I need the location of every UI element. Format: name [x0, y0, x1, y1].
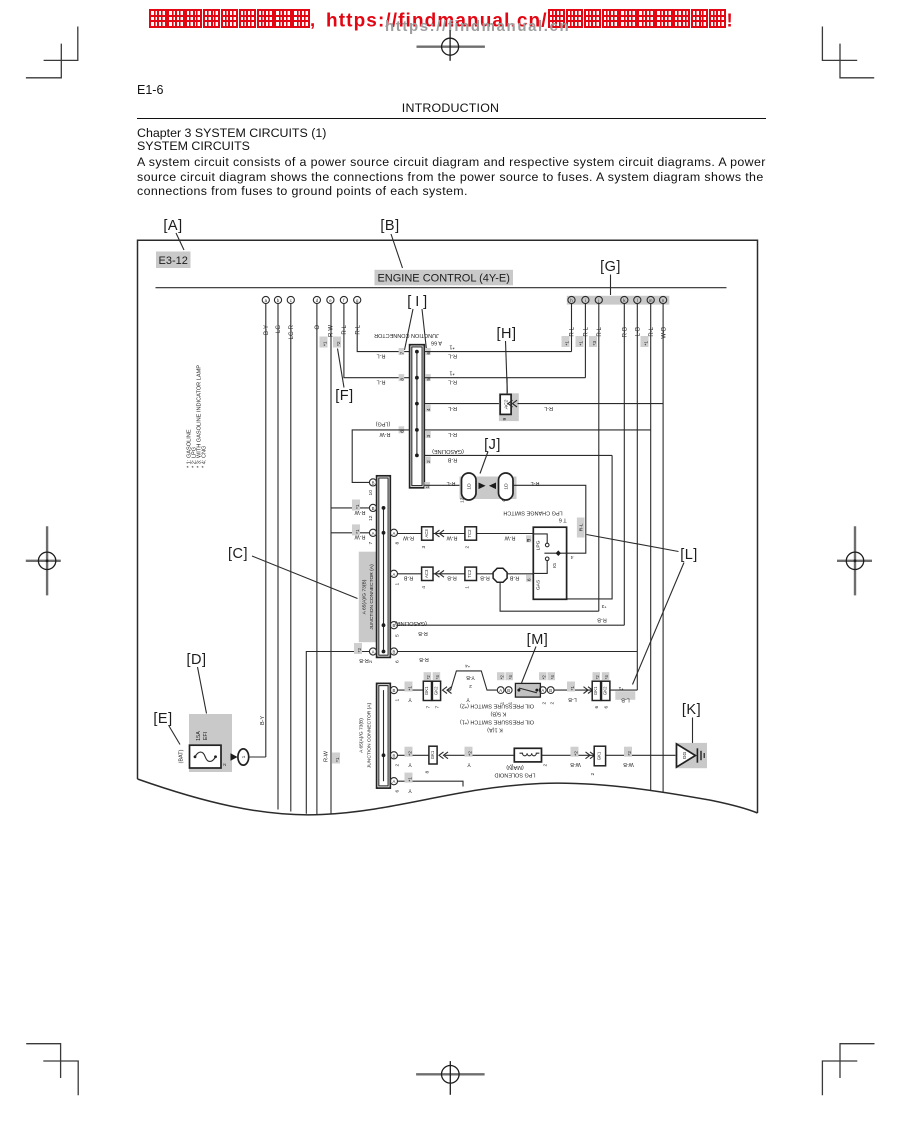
svg-text:[F]: [F]: [335, 388, 353, 404]
ground GG: [675, 743, 707, 768]
svg-text:*2: *2: [336, 341, 342, 346]
svg-text:R-W: R-W: [354, 534, 366, 540]
svg-text:6: 6: [395, 790, 401, 793]
svg-text:*2: *2: [499, 675, 504, 680]
svg-text:*4: *4: [508, 675, 513, 680]
svg-text:L-B: L-B: [568, 696, 577, 702]
svg-text:*1: *1: [408, 686, 414, 691]
svg-text:R-B: R-B: [447, 457, 457, 463]
svg-text:[ I ]: [ I ]: [407, 294, 427, 310]
svg-text:1D: 1D: [467, 483, 473, 490]
svg-text:R-L: R-L: [584, 326, 590, 336]
svg-text:5: 5: [395, 634, 401, 637]
svg-text:JUNCTION CONNECTOR (A): JUNCTION CONNECTOR (A): [366, 702, 372, 768]
svg-text:T 6: T 6: [559, 517, 567, 523]
diode connector 1D pair: [460, 477, 517, 500]
svg-text:(GASOLINE): (GASOLINE): [395, 620, 427, 626]
row B1: Y wire to oil pressure switch: [398, 689, 424, 691]
wire AC2 to pin n: [518, 403, 664, 405]
svg-text:3: 3: [426, 435, 432, 438]
wire l (pin l to L-B row): [636, 304, 638, 690]
svg-text:B: B: [372, 506, 375, 511]
svg-text:j: j: [597, 298, 599, 303]
wire gasoline return riser: [567, 455, 613, 599]
svg-text:GK1: GK1: [424, 686, 429, 695]
wire colour labels left bank: [264, 324, 361, 339]
LPG solenoid (MAIN) coil: [514, 748, 541, 762]
svg-text:3: 3: [421, 546, 427, 549]
svg-text:1: 1: [425, 486, 431, 489]
wire LPG loop A66 pin6 to B10: [352, 430, 409, 483]
A66 internal junction nodes: [415, 350, 419, 458]
svg-text:*1: *1: [644, 341, 650, 346]
row B5 GASOLINE R-B: [398, 624, 625, 626]
svg-text:2: 2: [426, 460, 432, 463]
wire R-L *2 (pin f to A66 pin 8): [344, 304, 410, 378]
svg-text:a: a: [265, 298, 268, 303]
svg-text:E3-12: E3-12: [159, 255, 188, 267]
svg-text:R-L: R-L: [342, 324, 348, 334]
oil pressure switch S1: [515, 683, 540, 697]
svg-text:*1: *1: [565, 341, 571, 346]
svg-text:R-L: R-L: [377, 379, 386, 385]
relay AC2: [499, 393, 519, 421]
wire A66 pin3 row to wire m: [424, 429, 650, 431]
wire jog Y-B *4: [448, 671, 497, 690]
wire k (pin k to B5 row): [623, 304, 625, 626]
svg-text:B: B: [392, 753, 395, 758]
figure frame with torn-edge bottom: [138, 240, 758, 815]
svg-text:(BAT): (BAT): [179, 749, 185, 763]
svg-text:1D: 1D: [504, 483, 510, 490]
connector GK1 (ground row): [594, 746, 605, 766]
connector AC3 (row 1): [422, 527, 433, 540]
row labels left of A66: [375, 353, 390, 437]
svg-text:R-B: R-B: [623, 327, 629, 337]
wire A66 pin6 row to pin h: [424, 304, 571, 352]
svg-text:6: 6: [594, 706, 600, 709]
svg-text:* 4: CNG: * 4: CNG: [202, 446, 208, 468]
fuse output arrow and pin 1: [231, 753, 238, 760]
svg-text:[H]: [H]: [496, 326, 516, 342]
svg-text:2: 2: [543, 764, 549, 767]
svg-text:A: A: [392, 531, 395, 536]
tag R-L on J wire: [577, 518, 585, 538]
svg-text:R-B: R-B: [597, 617, 607, 623]
svg-text:LPG: LPG: [536, 540, 542, 550]
svg-text:B-Y: B-Y: [264, 325, 270, 335]
wire fuse to B-Y: [249, 756, 266, 758]
svg-text:*2: *2: [468, 751, 474, 756]
svg-text:7: 7: [400, 352, 406, 355]
svg-text:W-B: W-B: [661, 327, 667, 339]
svg-text:A 65(A)/G 73(B): A 65(A)/G 73(B): [361, 579, 367, 614]
svg-text:R-B: R-B: [509, 575, 519, 581]
title rule: [137, 118, 766, 120]
svg-text:7: 7: [434, 706, 440, 709]
connector TC2 (row 2): [465, 567, 477, 580]
bus line: [156, 287, 727, 289]
svg-text:R-B: R-B: [359, 657, 369, 663]
wire n (pin n long run): [662, 304, 664, 792]
header banner: [149, 9, 749, 35]
svg-text:1: 1: [241, 755, 247, 758]
svg-text:B: B: [372, 480, 375, 485]
svg-text:R-W: R-W: [324, 750, 330, 762]
svg-text:d: d: [316, 298, 319, 303]
svg-text:g: g: [356, 298, 359, 303]
svg-text:GAS: GAS: [536, 579, 542, 590]
svg-text:7: 7: [368, 542, 374, 545]
wire option tags *1 *2 on bus wires: [320, 336, 650, 348]
wire 1D to switch pin 4: [513, 485, 586, 553]
svg-text:*1: *1: [408, 777, 414, 782]
wire R-W *1 (pin e): [330, 304, 332, 815]
svg-text:LG-R: LG-R: [289, 324, 295, 339]
svg-text:B: B: [392, 688, 395, 693]
bus pins a-g: [262, 296, 361, 303]
svg-text:GK2: GK2: [603, 686, 608, 695]
wire R-L *1 (pin g to A66 pin 7): [357, 304, 409, 352]
svg-text:R-W: R-W: [354, 509, 366, 515]
svg-text:Y: Y: [466, 696, 470, 702]
row B6 R-B to wire l: [398, 651, 638, 653]
svg-text:*3: *3: [601, 603, 606, 609]
section title: [0, 101, 901, 115]
svg-text:R-L: R-L: [448, 379, 457, 385]
svg-text:K 1(A): K 1(A): [487, 727, 503, 733]
gray watermark url: [385, 18, 570, 35]
junction connector A65/G73 upper body: [377, 476, 391, 658]
svg-text:8: 8: [400, 378, 406, 381]
svg-text:B-Y: B-Y: [260, 716, 266, 726]
figure number tag E3-12: [156, 252, 191, 269]
svg-text:R-L: R-L: [597, 326, 603, 336]
svg-text:TC2: TC2: [467, 569, 472, 578]
svg-text:K 5(B): K 5(B): [490, 711, 506, 717]
svg-text:9: 9: [502, 418, 508, 421]
svg-text:*4: *4: [604, 675, 609, 680]
wire R-W *1 to pin A7: [331, 532, 369, 534]
row A1 to octagon to switch pin 6: [398, 573, 494, 575]
svg-text:2: 2: [222, 763, 228, 766]
wire LG (pin b): [277, 304, 279, 810]
svg-text:2: 2: [590, 773, 596, 776]
svg-text:Y: Y: [408, 761, 412, 767]
svg-text:GK1: GK1: [597, 751, 602, 760]
svg-text:b: b: [277, 298, 280, 303]
svg-text:R-L: R-L: [649, 326, 655, 336]
LPG change switch U2: [533, 527, 566, 599]
svg-text:AC3: AC3: [424, 529, 429, 538]
svg-text:R-L: R-L: [570, 326, 576, 336]
svg-text:O: O: [315, 325, 321, 330]
wire R-W *1 to pin B12: [331, 507, 369, 509]
svg-text:GK1: GK1: [593, 686, 598, 695]
svg-text:A 66: A 66: [431, 340, 442, 346]
connector GK1 (solenoid row left): [429, 746, 437, 764]
svg-text:Y-B: Y-B: [466, 674, 475, 680]
svg-text:*1: *1: [355, 504, 361, 509]
svg-text:B: B: [392, 623, 395, 628]
row A8 to LPG change switch pin 3: [398, 533, 534, 535]
svg-text:Y: Y: [467, 761, 471, 767]
svg-text:L-B: L-B: [621, 697, 630, 703]
upper connector pins right: [390, 529, 397, 655]
bottom-center target mark: [416, 1061, 485, 1095]
system title ENGINE CONTROL (4Y-E): [375, 270, 514, 286]
svg-text:OIL PRESSURE SWITCH (*2): OIL PRESSURE SWITCH (*2): [460, 703, 534, 709]
junction connector A66 body: [410, 345, 425, 488]
svg-text:[K]: [K]: [682, 702, 701, 718]
fuse EFI 15A: [189, 714, 232, 772]
svg-text:*4: *4: [435, 675, 440, 680]
wire octagon loop R-B *3: [500, 582, 599, 611]
svg-text:6: 6: [604, 706, 610, 709]
upper connector pins left: [369, 479, 376, 655]
wire W-B to GK1: [542, 754, 595, 756]
svg-text:[E]: [E]: [153, 711, 172, 727]
svg-text:2: 2: [542, 702, 548, 705]
footnote legend (rotated): [187, 365, 208, 468]
svg-text:*2: *2: [595, 675, 600, 680]
connector GK1/GK2 pair (row B1): [423, 681, 431, 700]
svg-text:GK1: GK1: [430, 750, 435, 759]
svg-text:*1: *1: [579, 341, 585, 346]
svg-text:R-L: R-L: [544, 405, 553, 411]
svg-text:R-B: R-B: [419, 656, 429, 662]
svg-text:A: A: [499, 688, 502, 693]
chapter heading: [137, 127, 326, 153]
svg-text:[L]: [L]: [680, 547, 698, 563]
svg-text:R-L: R-L: [448, 405, 457, 411]
svg-text:R-L: R-L: [377, 353, 386, 359]
svg-text:15A: 15A: [196, 731, 202, 741]
svg-text:A: A: [392, 572, 395, 577]
svg-text:*2: *2: [574, 751, 580, 756]
svg-text:3: 3: [527, 537, 530, 543]
wire m (pin m long run): [650, 304, 652, 791]
svg-text:f: f: [343, 298, 345, 303]
svg-text:R-W: R-W: [379, 431, 391, 437]
svg-text:A: A: [372, 650, 375, 655]
svg-text:1: 1: [395, 583, 401, 586]
svg-text:*1: *1: [355, 529, 361, 534]
bus pins h-n: [568, 296, 667, 303]
svg-text:[J]: [J]: [484, 437, 501, 453]
svg-text:2: 2: [469, 683, 472, 689]
svg-text:GK2: GK2: [433, 686, 438, 695]
svg-text:[G]: [G]: [600, 259, 621, 275]
svg-text:6: 6: [395, 660, 401, 663]
svg-text:GG: GG: [682, 752, 688, 760]
svg-text:[D]: [D]: [186, 652, 206, 668]
node octagon: [493, 568, 507, 582]
connector GK1/GK2 pair (L-B row): [592, 681, 600, 700]
svg-text:[M]: [M]: [527, 632, 549, 648]
page number: [137, 83, 163, 97]
svg-text:R-B: R-B: [447, 575, 457, 581]
connector AC3 (row 2): [422, 567, 433, 580]
svg-text:[A]: [A]: [163, 218, 182, 234]
svg-text:LPG SOLENOID: LPG SOLENOID: [494, 772, 535, 778]
svg-text:7: 7: [425, 706, 431, 709]
junction connector A65/G73 lower body: [377, 683, 391, 788]
svg-text:12: 12: [460, 497, 466, 503]
svg-text:*1: *1: [323, 341, 329, 346]
svg-text:AC3: AC3: [424, 569, 429, 578]
svg-text:B: B: [507, 688, 510, 693]
svg-text:LG: LG: [276, 325, 282, 333]
svg-text:A: A: [372, 531, 375, 536]
svg-text:4: 4: [426, 408, 432, 411]
svg-text:*1: *1: [335, 757, 341, 762]
svg-text:l: l: [637, 298, 638, 303]
svg-text:*1: *1: [570, 686, 576, 691]
svg-text:R-L: R-L: [578, 523, 584, 531]
wire A66 pin4 row to AC2: [424, 403, 500, 405]
svg-text:8: 8: [425, 771, 431, 774]
svg-text:R-W: R-W: [446, 534, 458, 540]
svg-text:*1: *1: [618, 685, 623, 691]
wire A66 pin1 to diode connector: [424, 484, 461, 486]
svg-text:*2: *2: [426, 675, 431, 680]
wire L-B *1 to wire l: [610, 689, 637, 691]
wire j (pin j to octagon loop): [598, 304, 600, 612]
svg-text:R-L: R-L: [448, 431, 457, 437]
svg-text:R-B: R-B: [418, 630, 428, 636]
left-middle target mark: [26, 526, 61, 595]
svg-text:(MAIN): (MAIN): [506, 764, 524, 770]
top-center target mark: [417, 30, 485, 61]
svg-text:R-B: R-B: [403, 575, 413, 581]
wire LG-R (pin c): [290, 304, 292, 812]
svg-text:1: 1: [464, 586, 470, 589]
svg-text:2: 2: [550, 702, 556, 705]
svg-text:10: 10: [368, 490, 374, 496]
A66 pin number tags: [399, 348, 432, 489]
svg-text:W-B: W-B: [623, 761, 634, 767]
wire A66 pin5 row to pin i: [424, 304, 585, 378]
oil pressure switch pins right: [539, 687, 554, 694]
row B2: Y wire to LPG solenoid: [398, 754, 429, 756]
body paragraph: [137, 155, 766, 199]
svg-text:A: A: [392, 779, 395, 784]
svg-text:ENGINE CONTROL (4Y-E): ENGINE CONTROL (4Y-E): [377, 272, 509, 284]
svg-text:R-W: R-W: [504, 534, 516, 540]
svg-text:*1: *1: [449, 344, 454, 350]
svg-text:W-B: W-B: [570, 761, 581, 767]
junction connector A65(A)/G73(B) upper label: [359, 552, 377, 643]
svg-text:R-W: R-W: [329, 325, 335, 337]
svg-text:Y: Y: [408, 787, 412, 793]
wire A66 pin2 row (GASOLINE): [424, 454, 612, 456]
svg-text:12: 12: [368, 515, 374, 521]
svg-text:1: 1: [395, 699, 401, 702]
svg-text:B: B: [549, 688, 552, 693]
connector bar G: [567, 296, 670, 305]
svg-text:*2: *2: [408, 751, 414, 756]
svg-text:TC2: TC2: [467, 529, 472, 538]
svg-text:m: m: [649, 298, 653, 303]
svg-text:*2: *2: [627, 751, 633, 756]
svg-text:4: 4: [501, 499, 507, 502]
svg-text:*4: *4: [550, 675, 555, 680]
svg-text:[C]: [C]: [228, 546, 248, 562]
svg-text:JUNCTION CONNECTOR: JUNCTION CONNECTOR: [374, 332, 439, 338]
svg-text:8: 8: [395, 542, 401, 545]
svg-text:A: A: [541, 688, 544, 693]
lower connector pins: [390, 687, 397, 785]
svg-text:LPG CHANGE SWITCH: LPG CHANGE SWITCH: [503, 510, 562, 516]
svg-text:2: 2: [464, 546, 470, 549]
svg-text:4: 4: [571, 554, 574, 560]
connector TC2 (row 1): [465, 527, 477, 540]
svg-text:B: B: [392, 650, 395, 655]
svg-text:2: 2: [395, 764, 401, 767]
svg-text:*2: *2: [357, 648, 363, 653]
wire O (pin d): [316, 304, 318, 814]
wire B-Y (pin a to fuse): [265, 304, 267, 757]
svg-text:(GASOLINE): (GASOLINE): [432, 448, 464, 454]
right-middle target mark: [837, 526, 872, 595]
svg-text:R-B: R-B: [480, 575, 490, 581]
svg-text:Y: Y: [408, 696, 412, 702]
svg-text:A 65(A)/G 73(B): A 65(A)/G 73(B): [359, 718, 365, 753]
svg-text:*1: *1: [449, 370, 454, 376]
svg-text:R-L: R-L: [355, 324, 361, 334]
row A6: Y *1 stub to edge: [398, 781, 464, 786]
svg-text:6: 6: [527, 578, 533, 581]
svg-text:JUNCTION CONNECTOR (A): JUNCTION CONNECTOR (A): [369, 564, 375, 630]
wire W-B *2 to ground: [606, 754, 677, 756]
svg-text:4: 4: [421, 586, 427, 589]
svg-text:i: i: [585, 298, 586, 303]
svg-text:[B]: [B]: [380, 218, 399, 234]
svg-text:*3: *3: [592, 341, 598, 346]
svg-text:c: c: [290, 298, 293, 303]
svg-text:*4: *4: [465, 663, 470, 669]
wire colour labels right bank: [570, 326, 668, 338]
svg-text:R-L: R-L: [448, 353, 457, 359]
svg-text:(LPG): (LPG): [375, 421, 390, 427]
oil pressure switch pins left: [497, 687, 512, 694]
row labels right of A66: [432, 344, 553, 487]
svg-text:EFI: EFI: [203, 731, 209, 740]
switch contact diamond: [556, 550, 561, 556]
svg-text:e: e: [329, 298, 332, 303]
svg-text:L-B: L-B: [636, 327, 642, 336]
wire L-B to GK pair: [554, 689, 592, 691]
svg-text:R-W: R-W: [402, 534, 414, 540]
svg-text:IG: IG: [552, 563, 558, 568]
svg-text:*2: *2: [541, 675, 546, 680]
svg-text:OIL PRESSURE SWITCH (*1): OIL PRESSURE SWITCH (*1): [460, 719, 534, 725]
wire R-B *2 pin A2 riser: [306, 652, 369, 814]
